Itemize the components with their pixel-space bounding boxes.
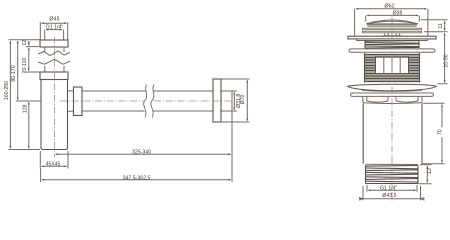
break zigzag upper: [38, 51, 70, 56]
dim 45X45 extension lines: [40, 151, 68, 169]
dim Ø43.5 line: [359, 198, 425, 200]
dim 12 bottom extension: [26, 46, 39, 48]
pipe top line: [82, 90, 213, 92]
dim 11 bottom extension: [424, 31, 448, 33]
dim 10-50 bottom extension: [438, 83, 448, 85]
dim 70 line: [441, 105, 443, 163]
dim 325-340 line: [56, 153, 231, 155]
dim G1 1/4 line: [46, 29, 62, 31]
gasket thread stack: [365, 41, 419, 49]
upper thread left block: [365, 53, 420, 83]
cap tabs: [383, 33, 403, 36]
dim G1 1/4 bottom line: [368, 189, 415, 191]
dim 45X45 line: [42, 165, 67, 167]
dim 70 top extension: [423, 102, 445, 104]
dim Ø45 line: [42, 22, 67, 24]
middle flange ellipse: [349, 49, 435, 52]
pipe break zigzag right: [151, 85, 154, 118]
pipe centerline extension left: [16, 100, 41, 102]
body bottom edge: [366, 163, 419, 165]
bottom thread: [366, 165, 419, 183]
dim 70 bottom extension: [423, 163, 445, 165]
dim G1 1/4 bottom extensions: [367, 185, 417, 192]
svg-text:347,5-362,5: 347,5-362,5: [123, 175, 151, 181]
right centerline: [391, 17, 393, 202]
wall flange: [213, 79, 221, 122]
svg-text:80-170: 80-170: [11, 65, 17, 81]
dim Ø43.5 arrows: [359, 197, 425, 200]
dim Ø43.5 extensions: [363, 186, 421, 200]
dim 10-50 line: [444, 33, 446, 82]
dim Ø38 extension lines: [366, 15, 420, 21]
dim Ø45 extension lines: [40, 22, 67, 40]
cap base line: [366, 23, 418, 25]
cap dome inner: [366, 21, 418, 24]
pipe bottom line: [82, 110, 213, 112]
dim 80-170 line: [17, 41, 19, 100]
dim Ø62 extension lines: [355, 9, 428, 36]
top flange lip: [357, 39, 428, 41]
neck scallops: [367, 101, 418, 102]
top flange plate: [348, 36, 436, 39]
dim Ø70 line: [246, 80, 248, 120]
thread window verticals: [384, 57, 400, 73]
svg-text:70: 70: [438, 129, 444, 135]
dim Ø70 extension lines: [221, 79, 250, 122]
body shoulder: [363, 102, 422, 105]
mounting saucer flange: [348, 84, 437, 90]
break zigzag lower: [38, 59, 70, 64]
body bottom extension line: [9, 149, 41, 151]
thread window: [376, 57, 409, 73]
left dims top extension line: [9, 39, 41, 41]
gasket ring under saucer: [351, 93, 434, 96]
cap band 3: [363, 31, 422, 33]
slotted neck: [363, 97, 422, 103]
svg-text:10-50: 10-50: [443, 54, 449, 67]
svg-text:128: 128: [22, 104, 28, 113]
dim 20-110 line: [28, 48, 30, 71]
svg-text:45X45: 45X45: [46, 161, 61, 167]
dim 12 right line: [426, 166, 428, 182]
dim 347.5-362.5 line: [42, 179, 231, 181]
outlet nut: [74, 87, 83, 116]
svg-text:12: 12: [22, 40, 28, 46]
dim 12 right extensions: [419, 165, 432, 184]
dim 160-250 line: [9, 41, 11, 148]
dim Ø62 line: [356, 8, 427, 10]
svg-text:20-110: 20-110: [22, 58, 28, 74]
pipe centerline: [60, 100, 232, 102]
body sides: [363, 104, 422, 164]
saucer inner curve: [362, 90, 422, 93]
dim Ø31.8 line: [233, 92, 235, 109]
body: [41, 80, 68, 150]
svg-text:11: 11: [438, 23, 444, 28]
dim 128 line: [28, 102, 30, 148]
dim 347.5-362.5 right extension: [231, 111, 233, 182]
tube stubs below break: [45, 66, 64, 72]
pipe end edge: [231, 91, 233, 111]
svg-text:325-340: 325-340: [132, 150, 151, 156]
top nut: [40, 40, 68, 47]
dim 12 line: [28, 41, 30, 45]
dim 347.5-362.5 left extension: [40, 169, 42, 183]
dim G1 1/4 extension lines: [45, 30, 64, 40]
pipe end stubs: [221, 91, 237, 111]
svg-text:Ø70: Ø70: [240, 94, 246, 104]
cap band 2: [363, 28, 422, 30]
dim 11 top extension: [421, 19, 448, 21]
svg-text:Ø45: Ø45: [49, 17, 59, 23]
outlet stubs: [68, 91, 74, 111]
dim Ø38 line: [367, 14, 418, 16]
svg-text:160-250: 160-250: [4, 81, 10, 100]
body nut: [40, 72, 68, 80]
pipe break zigzag left: [144, 85, 147, 118]
tube stubs above break: [45, 47, 64, 52]
cap band 1: [368, 25, 416, 26]
dim 11 line: [444, 21, 446, 30]
cap dome outer: [366, 20, 418, 24]
dim 70 label backing: [439, 127, 445, 137]
dim 20-110 bottom extension: [26, 71, 40, 73]
vertical centerline: [53, 37, 55, 158]
svg-text:12: 12: [427, 168, 433, 174]
